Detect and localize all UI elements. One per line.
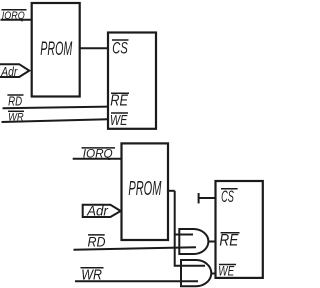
- pin WE bar: [111, 112, 128, 114]
- wire IORQ to U3: [73, 158, 122, 160]
- wire RD to G1 input: [74, 247, 197, 249]
- IORQ negation bar (bottom): [82, 147, 116, 149]
- svg-text:RE: RE: [110, 93, 128, 110]
- svg-text:Adr: Adr: [86, 204, 108, 219]
- memory control box U2: [108, 33, 156, 129]
- wire CS stub: [199, 197, 216, 199]
- RD negation bar (bottom): [88, 234, 105, 236]
- wire U3 select stub: [168, 190, 175, 192]
- svg-text:Adr: Adr: [1, 64, 18, 79]
- Adr bus arrow: [0, 64, 29, 77]
- CS stub end tick: [198, 193, 200, 203]
- wire IORQ to U1: [1, 19, 32, 21]
- AND gate G1: [179, 229, 208, 254]
- memory control box U4: [216, 181, 263, 278]
- wire WR to G2 input: [75, 280, 198, 282]
- svg-text:RD: RD: [88, 235, 106, 250]
- IORQ negation bar: [2, 9, 27, 11]
- pin RE bar (U4): [221, 232, 240, 234]
- pin WE bar (U4): [219, 264, 236, 266]
- PROM U3: [122, 143, 169, 240]
- svg-text:PROM: PROM: [128, 177, 161, 200]
- pin CS bar (U4): [221, 188, 238, 190]
- svg-text:RE: RE: [219, 232, 239, 250]
- WR negation bar (bottom): [81, 267, 104, 269]
- RD negation bar: [7, 94, 23, 96]
- AND gate G2: [181, 260, 211, 286]
- svg-text:PROM: PROM: [40, 38, 72, 60]
- Adr bus arrow (bottom): [83, 205, 121, 217]
- svg-text:RD: RD: [8, 94, 22, 109]
- svg-text:WE: WE: [110, 112, 128, 129]
- pin RE bar: [111, 92, 129, 94]
- wire WR to WE: [2, 119, 109, 122]
- wire G2 output to WE: [211, 273, 216, 275]
- PROM U1: [32, 3, 80, 97]
- wire select vertical feed: [175, 191, 205, 266]
- pin CS bar: [112, 39, 129, 41]
- svg-text:WE: WE: [218, 264, 234, 279]
- wire feed to G1 input: [175, 234, 193, 236]
- svg-text:CS: CS: [112, 39, 128, 58]
- svg-text:CS: CS: [221, 187, 234, 206]
- WR negation bar: [8, 110, 24, 112]
- wire U1 to CS pin: [80, 47, 108, 49]
- wire RD to RE: [3, 107, 109, 109]
- wire G1 output to RE: [208, 241, 215, 243]
